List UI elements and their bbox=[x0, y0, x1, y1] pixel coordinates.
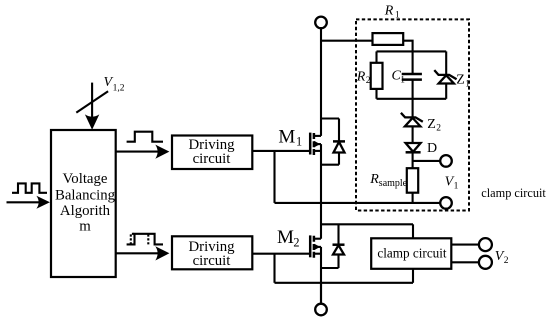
svg-text:1: 1 bbox=[296, 135, 302, 149]
svg-text:2: 2 bbox=[436, 123, 441, 133]
wire Z1 bottom lead bbox=[445, 84, 447, 99]
arrow VB to driving circuit 2 line bbox=[116, 252, 161, 254]
resistor R2 bbox=[371, 63, 383, 89]
resistor R1 bbox=[373, 33, 404, 45]
arrow VB to driving circuit 1 head bbox=[155, 145, 169, 159]
pulse glyph 2 solid bbox=[127, 234, 163, 245]
zener Z1 triangle bbox=[439, 75, 454, 83]
wire M1 loop bottom rail bbox=[321, 164, 339, 166]
svg-text:circuit: circuit bbox=[193, 151, 232, 167]
mosfet M2 source lead bbox=[314, 253, 321, 255]
input arrow line bbox=[7, 201, 42, 203]
wire M2 source bottom rail bbox=[275, 282, 414, 284]
svg-text:1: 1 bbox=[400, 76, 405, 86]
bus slash bbox=[76, 91, 108, 112]
wire clamp stub bottom bbox=[412, 269, 414, 283]
svg-text:2: 2 bbox=[366, 76, 371, 86]
svg-text:clamp circuit: clamp circuit bbox=[377, 245, 447, 260]
svg-text:M: M bbox=[277, 227, 294, 248]
svg-text:2: 2 bbox=[293, 235, 299, 249]
wire bottom terminal lead bbox=[320, 283, 322, 304]
mosfet M1 source lead bbox=[314, 150, 321, 152]
body diode M2 triangle bbox=[333, 245, 344, 254]
wire parallel top rail bbox=[377, 50, 447, 52]
mosfet M2 drain lead bbox=[314, 238, 321, 240]
wire M1 gate return drop bbox=[273, 151, 275, 203]
zener Z2 bar bbox=[401, 113, 423, 122]
wire parallel bottom rail bbox=[377, 98, 447, 100]
svg-text:1,2: 1,2 bbox=[113, 83, 125, 93]
body diode M2 bar bbox=[333, 243, 345, 246]
mosfet M1 body arrow bbox=[314, 141, 320, 147]
wire Z1 top lead bbox=[445, 51, 447, 75]
wire clamp stub top bbox=[412, 224, 414, 238]
zener Z2 triangle bbox=[405, 118, 421, 127]
mosfet M2 body arrow bbox=[314, 244, 320, 250]
mosfet M1 gate bar bbox=[309, 133, 312, 155]
wire M2 diode bottom rail bbox=[321, 267, 339, 269]
wire clamp to V2 top bbox=[451, 244, 479, 246]
body diode M1 bar bbox=[333, 140, 345, 143]
wire main rail M1 source section bbox=[320, 144, 322, 239]
wire C1 bottom to rail bbox=[412, 80, 414, 99]
svg-text:Z: Z bbox=[427, 117, 436, 132]
mosfet M1 drain lead bbox=[314, 135, 321, 137]
svg-text:D: D bbox=[427, 141, 437, 156]
diode D bar bbox=[406, 151, 421, 154]
body diode M1 triangle bbox=[334, 142, 345, 153]
wire main rail M2 source section bbox=[320, 247, 322, 304]
arrow VB to driving circuit 2 head bbox=[155, 246, 169, 260]
driving circuit 2 box bbox=[172, 236, 252, 269]
terminal V1 bottom bbox=[440, 197, 452, 209]
terminal V1 top bbox=[440, 155, 452, 167]
mosfet M1 body lead bbox=[314, 143, 321, 145]
wire M2 loop top rail bbox=[321, 223, 413, 225]
svg-text:Algorith: Algorith bbox=[60, 203, 111, 219]
mosfet M1 channel segments bbox=[313, 133, 316, 155]
input arrowhead bbox=[36, 196, 50, 209]
mosfet M2 body lead bbox=[314, 246, 321, 248]
V_{1,2} arrowhead bbox=[85, 114, 99, 129]
wire top junction to R1 bbox=[321, 40, 373, 42]
clamp circuit box 2 bbox=[371, 238, 451, 268]
svg-text:1: 1 bbox=[454, 181, 459, 191]
wire clamp to V2 bottom bbox=[451, 261, 479, 263]
svg-text:2: 2 bbox=[504, 256, 509, 266]
pulse glyph 1 bbox=[127, 132, 163, 142]
capacitor C1 top plate bbox=[402, 73, 422, 76]
svg-text:circuit: circuit bbox=[193, 253, 232, 269]
terminal V2 top bbox=[479, 238, 492, 251]
terminal V2 bottom bbox=[479, 256, 492, 269]
wire bottom rail to Z2 bbox=[412, 99, 414, 118]
svg-text:Balancing: Balancing bbox=[55, 188, 116, 204]
terminal bottom bbox=[315, 304, 327, 316]
wire Rsample bottom bbox=[412, 193, 414, 203]
pulse glyph 2 dashed fall bbox=[147, 234, 149, 245]
wire M2 gate bbox=[252, 253, 310, 255]
svg-text:sample: sample bbox=[379, 178, 408, 189]
wire main rail upper (terminal to M1 drain lead) bbox=[320, 28, 322, 136]
svg-text:R: R bbox=[369, 172, 379, 187]
svg-text:clamp circuit: clamp circuit bbox=[481, 186, 546, 200]
wire D to Rsample junction bbox=[412, 152, 414, 168]
wire R2 top lead bbox=[375, 51, 377, 62]
arrow VB to driving circuit 1 line bbox=[116, 151, 161, 153]
wire M2 diode upper bbox=[337, 224, 339, 244]
resistor Rsample bbox=[407, 168, 418, 193]
input waveform glyph bbox=[12, 183, 47, 192]
wire Z2 to D bbox=[412, 126, 414, 143]
driving circuit 1 box bbox=[172, 136, 252, 170]
wire M1 loop top rail bbox=[321, 117, 339, 119]
V_{1,2} input line bbox=[91, 83, 93, 120]
svg-text:Z: Z bbox=[456, 72, 465, 87]
diode D triangle bbox=[406, 143, 421, 152]
wire M1 diode lower bbox=[338, 153, 340, 165]
capacitor C1 bottom plate bbox=[402, 78, 422, 81]
wire R1 to C1 branch bbox=[403, 41, 412, 74]
wire M2 diode lower bbox=[337, 255, 339, 269]
wire M1 gate bbox=[252, 150, 310, 152]
wire junction to V1 top terminal bbox=[413, 160, 441, 162]
wire R2 bottom lead bbox=[375, 89, 377, 99]
svg-text:Voltage: Voltage bbox=[63, 171, 108, 187]
svg-text:R: R bbox=[356, 70, 366, 85]
svg-text:R: R bbox=[384, 4, 394, 19]
wire M2 gate return drop bbox=[273, 254, 275, 283]
mosfet M2 gate bar bbox=[309, 235, 312, 257]
svg-text:m: m bbox=[79, 218, 91, 234]
voltage balancing algorithm box bbox=[51, 130, 116, 277]
wire M1 diode upper bbox=[338, 119, 340, 142]
clamp circuit dashed box bbox=[356, 19, 469, 210]
svg-text:M: M bbox=[278, 126, 295, 147]
zener Z1 bar bbox=[434, 70, 456, 79]
terminal top bbox=[315, 17, 327, 29]
wire source return rail to V1 bottom terminal bbox=[275, 202, 441, 204]
pulse glyph 2 dashed rise bbox=[131, 234, 135, 245]
mosfet M2 channel segments bbox=[313, 236, 316, 258]
